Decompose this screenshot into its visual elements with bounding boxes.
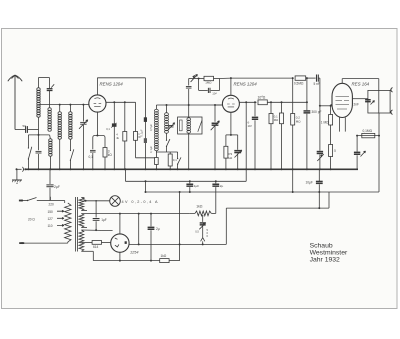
svg-text:1254: 1254: [130, 251, 138, 255]
label C9: [314, 82, 320, 86]
svg-text:150: 150: [48, 210, 54, 214]
node n5: [96, 135, 98, 137]
wire R13 below bus: [292, 169, 294, 192]
svg-text:2nF: 2nF: [354, 103, 360, 107]
output transformer T2: [368, 90, 390, 113]
svg-text:2µ: 2µ: [156, 227, 160, 231]
coil L6: [165, 105, 169, 133]
svg-text:1 MΩ: 1 MΩ: [321, 121, 329, 125]
tube V1 RENS 1204: [89, 95, 106, 112]
node n3: [82, 104, 84, 106]
trimmer C5: [167, 123, 174, 131]
label L5 rotated a: [149, 124, 153, 131]
wire to primary top: [50, 201, 64, 204]
wire row2 horizontal: [28, 134, 49, 136]
wire anode upper: [81, 229, 112, 231]
wire R18 to riser: [169, 244, 180, 260]
svg-text:1kΩ: 1kΩ: [196, 205, 203, 209]
capacitor C2: [36, 135, 42, 169]
label 20ohm: [28, 217, 35, 221]
wire right rail down: [378, 113, 380, 192]
wire V2 rail stub: [215, 104, 222, 106]
wire V1 plate: [106, 101, 136, 103]
resistor R15 1k: [329, 145, 333, 170]
wire R9 to n15: [267, 101, 307, 103]
label C17: [101, 218, 107, 222]
speaker terminal TP1: [391, 88, 393, 93]
wire R4 tail: [136, 140, 155, 158]
capacitor C6 loop: [199, 79, 220, 94]
wire V2 cathode: [230, 112, 232, 135]
svg-text:220: 220: [49, 203, 55, 207]
label V2 RENS 1204: [234, 82, 258, 87]
svg-text:0,5MΩ: 0,5MΩ: [294, 82, 304, 86]
svg-text:1kΩ: 1kΩ: [161, 254, 167, 258]
ground symbol: [12, 169, 22, 183]
svg-text:0,1: 0,1: [89, 155, 94, 159]
node n11: [230, 77, 232, 79]
capacitor C4 (dark): [144, 138, 147, 143]
node n22: [119, 213, 152, 215]
wire V1 cathode down: [96, 112, 98, 135]
resistor R11: [280, 102, 284, 169]
resistor R9 10k: [258, 100, 267, 105]
capacitor C13 2uF: [46, 169, 53, 200]
wire primary bottom: [22, 242, 68, 243]
line A left leg: [124, 169, 126, 181]
wire lamp left: [84, 200, 110, 202]
wire rail to box coil: [188, 105, 190, 118]
arrow tap: [201, 238, 205, 245]
node n7: [124, 101, 126, 103]
potentiometer R19 1k: [189, 211, 216, 216]
wire box coil to bus: [188, 133, 190, 169]
wire antenna to C-ant: [15, 129, 23, 131]
wire C9 to V3 grid: [318, 78, 332, 106]
svg-text:0,5µF: 0,5µF: [149, 124, 153, 131]
node n2: [69, 104, 71, 106]
mains terminal E1: [19, 200, 23, 202]
wire to terminals: [390, 90, 391, 113]
node n14: [254, 101, 256, 103]
tap 220: [49, 197, 55, 207]
wire lamp feed: [95, 200, 97, 218]
capacitor C19 tap: [199, 223, 206, 230]
caption Jahr 1932: [310, 257, 340, 264]
label C18: [156, 227, 160, 231]
svg-text:5 nF: 5 nF: [314, 82, 320, 86]
transformer T1 secondary S3w: [79, 230, 84, 251]
label C16: [306, 181, 313, 185]
wire coil bottoms row: [156, 151, 177, 153]
speaker terminal TP2: [391, 110, 393, 115]
wire V2 plate: [239, 101, 256, 103]
svg-text:0,1: 0,1: [106, 127, 110, 131]
label R17: [93, 245, 99, 249]
wire drop c: [135, 102, 137, 131]
line A right leg: [245, 169, 247, 181]
capacitor C3 cathode: [90, 138, 96, 170]
svg-text:20 Ω: 20 Ω: [28, 217, 35, 221]
label tap: [207, 228, 209, 238]
label L5 rotated b: [149, 146, 153, 153]
label R3: [116, 133, 119, 140]
transformer T1 primary: [65, 203, 71, 242]
wire grid-stop drop: [144, 78, 146, 170]
node n8: [166, 104, 190, 106]
label V1 RENS 1204: [100, 82, 124, 87]
label C-ant: [23, 124, 27, 128]
label R13: [296, 116, 301, 124]
wire V3 screen right: [352, 98, 368, 100]
mains terminal E2: [19, 242, 24, 244]
secondary stubs: [81, 198, 93, 252]
svg-text:0,5: 0,5: [195, 230, 199, 234]
svg-text:Schaub: Schaub: [310, 242, 333, 249]
node n6: [113, 101, 115, 103]
label LP1: [122, 200, 158, 204]
capacitor C20 (dark) on drop a: [111, 102, 116, 169]
capacitor C11 2nF: [365, 100, 374, 105]
transformer T1 core: [76, 197, 78, 252]
label C14: [194, 184, 199, 188]
resistor R5 (dark): [144, 117, 147, 122]
label R16: [363, 129, 373, 133]
capacitor C18 2u: [148, 214, 155, 261]
wire rect cathode up: [119, 214, 121, 234]
node n10: [198, 78, 200, 80]
label R18: [161, 254, 167, 258]
svg-text:2µ: 2µ: [220, 184, 224, 188]
wire screen drop: [245, 102, 247, 169]
capacitor C9 5nF: [317, 75, 319, 82]
node n1: [59, 104, 61, 106]
resistor R20 under L5: [155, 151, 159, 170]
wire C16 down to line D: [318, 192, 320, 208]
wire V3 filament legs: [339, 118, 345, 132]
wire rail: [306, 77, 316, 79]
switch S4: [177, 152, 181, 169]
label R4: [138, 132, 141, 139]
svg-text:110: 110: [48, 224, 53, 228]
label R14: [321, 121, 329, 125]
rectifier V4: [111, 234, 129, 252]
capacitor C15 2uF: [212, 180, 219, 213]
tap 150: [48, 210, 65, 214]
coil L4: [69, 112, 72, 140]
resistor R12 0.5M: [295, 76, 306, 80]
svg-text:0,1µF: 0,1µF: [149, 146, 153, 153]
wire RC to V2 grid: [220, 77, 231, 79]
wire bias row: [357, 135, 379, 137]
svg-text:127: 127: [48, 217, 54, 221]
tap 110: [48, 224, 65, 228]
label C10: [312, 110, 322, 114]
label C19: [195, 230, 199, 234]
node n20: [356, 135, 380, 137]
capacitor C10 300pF: [304, 78, 311, 169]
svg-text:RES 164: RES 164: [352, 82, 370, 87]
label R19: [196, 205, 203, 209]
label R8: [229, 152, 234, 160]
wire L1 bottom junction: [38, 117, 40, 135]
resistor R8: [224, 135, 228, 169]
coil L2b (secondary lower): [49, 135, 52, 169]
svg-text:RENS 1204: RENS 1204: [234, 82, 258, 87]
resistor R18 1k: [160, 259, 169, 263]
wire top rail right: [231, 77, 293, 79]
wire tap mid: [202, 226, 204, 237]
wire V1 grid cap up: [96, 78, 98, 95]
wire L3 top: [59, 105, 61, 112]
tube V2 RENS 1204: [222, 95, 239, 112]
label R10/R11: [274, 115, 278, 123]
svg-text:1MΩ: 1MΩ: [205, 81, 212, 85]
variable capacitor VC1: [79, 105, 88, 170]
pilot lamp LP1: [110, 196, 121, 207]
node n24: [202, 243, 204, 245]
line D: [226, 207, 329, 209]
svg-text:0,1: 0,1: [173, 158, 177, 162]
capacitor C16 10uF: [316, 169, 323, 192]
label C4 rotated: [139, 129, 143, 136]
node n17: [306, 77, 308, 79]
wire V2 cathode row: [226, 134, 238, 136]
label C3: [89, 155, 94, 159]
label R1: [108, 150, 113, 158]
svg-text:MΩ: MΩ: [274, 118, 278, 122]
pickup arrow P1: [191, 74, 198, 82]
svg-text:50: 50: [23, 124, 27, 128]
label R15: [334, 149, 337, 153]
label V3 RES 164: [352, 82, 370, 87]
caption Schaub: [310, 242, 333, 249]
capacitor C8: [252, 102, 258, 169]
svg-text:MΩ: MΩ: [296, 119, 301, 123]
resistor R3: [123, 132, 127, 170]
node n12: [230, 134, 232, 136]
wire L3 bottom to bus: [59, 139, 61, 169]
node n19: [330, 105, 332, 107]
wire volume drop: [186, 79, 192, 106]
line A (decoupled +): [125, 180, 246, 182]
label R9: [258, 95, 266, 100]
node n13: [245, 101, 247, 103]
resistor R1 cathode: [103, 138, 107, 170]
heater return line: [93, 251, 159, 260]
trimmer C1 with arrow: [47, 78, 55, 108]
tube V3 RES 164: [332, 83, 352, 117]
label R12: [294, 82, 304, 86]
label R6: [173, 158, 177, 162]
wire cathode row: [93, 136, 105, 138]
wire drop b: [124, 102, 126, 131]
variable capacitor VC2: [211, 105, 220, 169]
antenna A1: [8, 75, 22, 129]
svg-text:0,1µF: 0,1µF: [139, 129, 143, 136]
node n18: [319, 105, 321, 107]
wire L4 top: [69, 105, 71, 112]
label C15: [220, 184, 224, 188]
label C20: [106, 127, 110, 131]
capacitor C12 with arrow: [354, 136, 366, 169]
svg-text:0,1MΩ: 0,1MΩ: [363, 129, 373, 133]
svg-text:10µF: 10µF: [306, 181, 313, 185]
label R7: [205, 81, 212, 85]
label V4 1254: [130, 251, 138, 255]
label C8: [248, 121, 253, 129]
svg-text:RENS 1204: RENS 1204: [100, 82, 124, 87]
switch S3: [166, 133, 170, 152]
line E: [129, 243, 226, 245]
label C11: [354, 103, 360, 107]
mains switch S6: [21, 198, 50, 202]
wire V3 cathode left: [331, 104, 332, 106]
wire rect bottom: [119, 252, 121, 260]
transformer T1 secondary S1w: [79, 198, 84, 211]
node n23: [119, 260, 152, 262]
switch S5 in box: [198, 120, 202, 132]
caption Westminster: [310, 250, 348, 257]
svg-text:614: 614: [93, 245, 99, 249]
coil L2a (secondary upper): [48, 108, 51, 131]
trimmer C21: [317, 106, 324, 170]
svg-text:kΩ: kΩ: [108, 153, 113, 157]
label C6: [212, 92, 217, 96]
capacitor C17 1uF: [93, 219, 100, 231]
node n16: [292, 77, 294, 79]
svg-text:2µF: 2µF: [54, 185, 60, 189]
node n21: [292, 191, 321, 193]
svg-text:1µF: 1µF: [194, 184, 199, 188]
resistor R6: [168, 152, 172, 169]
resistor R4: [134, 132, 138, 141]
node n25: [318, 207, 320, 209]
wire V2 grid cap: [230, 78, 232, 95]
bus nodes: [16, 168, 332, 170]
line A-C link: [145, 180, 147, 193]
node n15: [270, 101, 308, 103]
resistor R21 in box: [180, 120, 183, 131]
wire V1 grid top rail: [97, 77, 145, 79]
tap 127: [48, 217, 65, 221]
resistor R7 1M: [204, 76, 214, 80]
wire D-C link: [328, 192, 330, 208]
switch S1: [28, 135, 32, 169]
label C13: [54, 185, 60, 189]
band filter box: [178, 117, 202, 134]
node n9: [214, 104, 216, 106]
wire E-D corner: [225, 208, 227, 244]
wire L1 top to trimmer: [39, 78, 50, 89]
svg-text:Jahr 1932: Jahr 1932: [310, 257, 340, 264]
wire pot tap: [202, 215, 203, 222]
wire grid line horizontal: [39, 104, 89, 106]
switch S2 (wave change): [70, 139, 74, 169]
resistor R10: [269, 102, 273, 169]
coil L1 (antenna primary): [37, 88, 40, 118]
capacitor C7 with arrow: [234, 135, 242, 169]
resistor R13 0.2M: [291, 78, 295, 169]
capacitor C-ant (series antenna cap): [23, 126, 39, 133]
wire top rail mid: [156, 104, 222, 106]
B+ line: [81, 213, 189, 215]
wire V3 plate top: [342, 79, 379, 91]
heater line C: [146, 191, 380, 193]
resistor R17 614: [81, 241, 110, 245]
wire heater riser: [179, 191, 181, 245]
coil L5: [155, 105, 159, 151]
coil L3: [58, 112, 61, 140]
svg-text:1µF: 1µF: [101, 218, 107, 222]
node n4: [38, 134, 40, 136]
svg-text:4V 0,2-0,4 A: 4V 0,2-0,4 A: [122, 200, 158, 204]
capacitor C14 1uF: [186, 180, 193, 193]
resistor R14 1M grid leak: [329, 106, 333, 145]
svg-text:Westminster: Westminster: [310, 250, 348, 257]
resistor R16 0.1M: [362, 133, 375, 137]
wire E line leg: [138, 214, 140, 245]
wire pickup to RC: [189, 78, 199, 80]
transformer T1 secondary S2w: [79, 214, 84, 228]
ground bus: [17, 167, 358, 172]
coil L8 in box: [187, 118, 191, 133]
